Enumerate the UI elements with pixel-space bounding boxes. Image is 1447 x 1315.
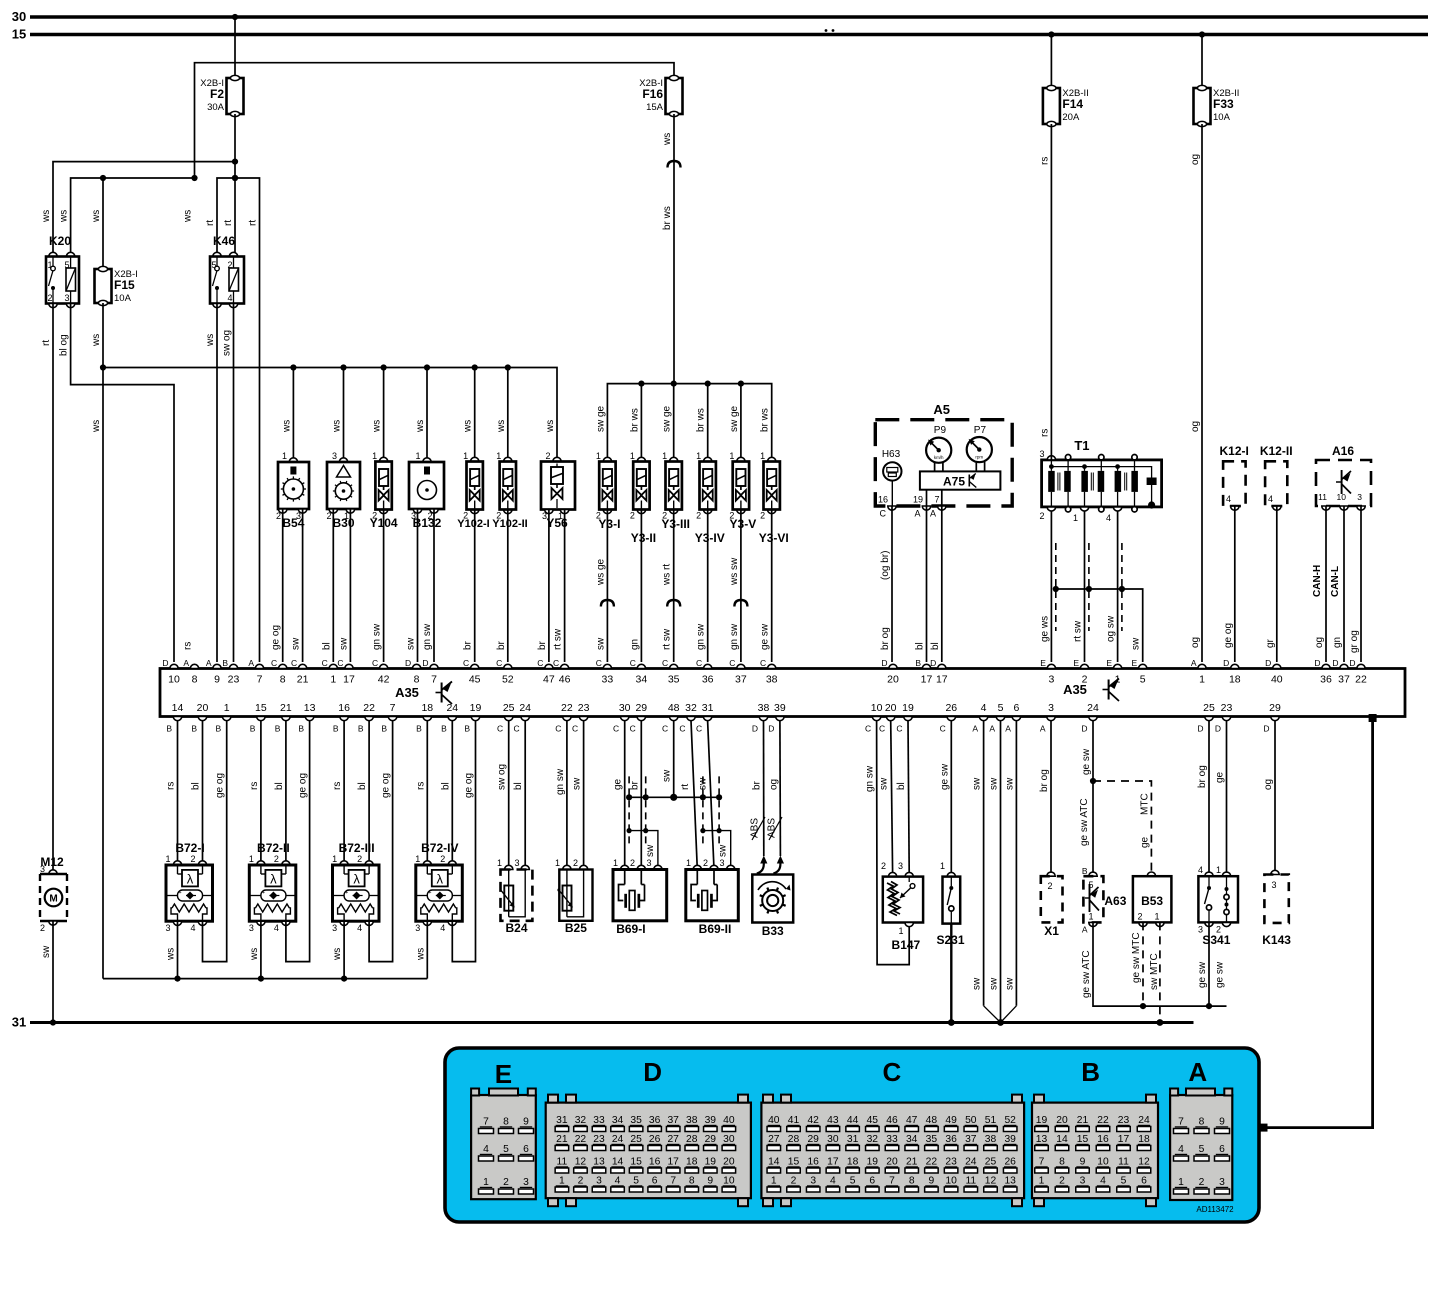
svg-text:16: 16 <box>649 1157 661 1168</box>
svg-text:og: og <box>1263 779 1274 790</box>
Y3 feed bus <box>607 384 771 462</box>
svg-text:35: 35 <box>926 1134 938 1145</box>
svg-text:A: A <box>206 658 212 668</box>
svg-text:19: 19 <box>913 495 923 505</box>
svg-text:22: 22 <box>926 1157 938 1168</box>
svg-text:38: 38 <box>686 1115 698 1126</box>
svg-text:B: B <box>915 658 921 668</box>
svg-text:gn: gn <box>629 639 640 650</box>
svg-text:br: br <box>496 640 507 650</box>
A35 top pin 37D <box>1340 664 1348 668</box>
svg-text:24: 24 <box>612 1134 624 1145</box>
svg-text:T1: T1 <box>1074 438 1089 453</box>
sensor B30 <box>339 458 347 462</box>
svg-text:25: 25 <box>503 702 515 714</box>
svg-text:K12-I: K12-I <box>1220 444 1249 458</box>
svg-text:23: 23 <box>578 702 590 714</box>
svg-text:1: 1 <box>330 674 336 686</box>
wire T1.4 to A35 1E <box>1117 511 1119 662</box>
svg-text:br ws: br ws <box>696 408 707 432</box>
svg-text:M: M <box>49 894 57 905</box>
svg-text:4: 4 <box>190 923 195 933</box>
svg-text:1: 1 <box>771 1176 777 1187</box>
svg-text:ws: ws <box>372 420 383 433</box>
svg-text:2: 2 <box>1199 1177 1205 1188</box>
svg-text:25: 25 <box>985 1157 997 1168</box>
svg-text:B33: B33 <box>762 924 784 938</box>
sensor B33 wires <box>763 721 765 856</box>
svg-text:rs: rs <box>332 782 343 790</box>
svg-text:1: 1 <box>165 854 170 864</box>
svg-text:sw: sw <box>41 945 52 958</box>
svg-text:14: 14 <box>612 1157 624 1168</box>
svg-text:C: C <box>497 724 503 734</box>
svg-text:3: 3 <box>523 1177 529 1188</box>
link A35 to connector panel <box>1369 714 1377 722</box>
svg-text:6: 6 <box>1219 1144 1225 1155</box>
svg-text:1: 1 <box>224 702 230 714</box>
svg-text:19: 19 <box>1036 1115 1048 1126</box>
svg-text:13: 13 <box>304 702 316 714</box>
svg-text:br ws: br ws <box>760 408 771 432</box>
svg-text:13: 13 <box>593 1157 605 1168</box>
svg-text:A63: A63 <box>1104 894 1126 908</box>
svg-text:A: A <box>1188 1057 1207 1087</box>
svg-text:33: 33 <box>602 674 614 686</box>
A35 bottom pin 19C <box>904 717 912 721</box>
valve Y3-IV <box>704 457 712 461</box>
svg-text:λ: λ <box>437 872 444 887</box>
svg-text:1: 1 <box>630 451 635 461</box>
wire B30.2 <box>332 509 334 662</box>
svg-text:19: 19 <box>470 702 482 714</box>
svg-text:bl: bl <box>896 782 907 790</box>
svg-text:24: 24 <box>965 1157 977 1168</box>
svg-text:34: 34 <box>636 674 648 686</box>
svg-text:bl: bl <box>440 782 451 790</box>
svg-text:2: 2 <box>1059 1176 1065 1187</box>
svg-text:3: 3 <box>1039 449 1044 459</box>
svg-text:ge og: ge og <box>1223 623 1234 648</box>
svg-text:A: A <box>248 658 254 668</box>
svg-text:rs: rs <box>166 782 177 790</box>
svg-text:2: 2 <box>503 1177 509 1188</box>
svg-text:B: B <box>464 724 470 734</box>
valve Y3-I <box>603 457 611 461</box>
node F15 tap <box>100 175 106 181</box>
svg-text:ge ws: ge ws <box>1039 616 1050 642</box>
svg-text:A: A <box>914 509 920 519</box>
A35 top pin 8A <box>190 664 198 668</box>
wire Y102-I.2 <box>474 510 476 663</box>
svg-text:C: C <box>879 724 885 734</box>
svg-text:F16: F16 <box>642 87 663 101</box>
bus 15 <box>30 33 1428 36</box>
svg-text:rt: rt <box>205 220 216 226</box>
svg-text:C: C <box>572 724 578 734</box>
svg-text:rt: rt <box>41 340 52 346</box>
svg-text:gn sw: gn sw <box>555 768 566 795</box>
svg-text:15: 15 <box>255 702 267 714</box>
svg-text:46: 46 <box>886 1115 898 1126</box>
svg-text:22: 22 <box>363 702 375 714</box>
A35 bottom pin 20C <box>887 717 895 721</box>
A35 bottom pin 26C <box>947 717 955 721</box>
A35 top pin 45C <box>471 664 479 668</box>
svg-text:ws: ws <box>332 948 343 961</box>
svg-text:CAN-L: CAN-L <box>1330 566 1341 597</box>
svg-text:bl: bl <box>321 642 332 650</box>
svg-text:1: 1 <box>1178 1177 1184 1188</box>
svg-text:D: D <box>405 658 411 668</box>
svg-text:20: 20 <box>887 674 899 686</box>
sender B69-I <box>624 721 626 869</box>
wire stub <box>383 368 385 462</box>
svg-text:44: 44 <box>847 1115 859 1126</box>
svg-text:B: B <box>298 724 304 734</box>
svg-text:ge sw: ge sw <box>1081 748 1092 775</box>
svg-text:br: br <box>537 640 548 650</box>
wire H63 to A35.20 <box>891 481 893 506</box>
svg-text:rt sw: rt sw <box>1073 620 1084 642</box>
svg-text:A35: A35 <box>395 685 419 700</box>
svg-text:br: br <box>752 780 763 790</box>
wire K46.3 to A35 pin9 <box>216 304 218 663</box>
svg-text:B72-II: B72-II <box>257 841 290 855</box>
svg-text:25: 25 <box>1203 702 1215 714</box>
svg-text:9: 9 <box>523 1117 529 1128</box>
svg-text:D: D <box>1314 658 1320 668</box>
wire Y3-IV out <box>707 510 709 663</box>
svg-text:3: 3 <box>64 293 69 303</box>
svg-text:37: 37 <box>965 1134 977 1145</box>
svg-text:Y3-I: Y3-I <box>598 517 620 531</box>
svg-text:29: 29 <box>635 702 647 714</box>
svg-text:13: 13 <box>1004 1176 1016 1187</box>
svg-text:11: 11 <box>1318 492 1327 502</box>
svg-text:F15: F15 <box>114 278 135 292</box>
svg-text:7: 7 <box>390 702 396 714</box>
svg-text:2: 2 <box>791 1176 797 1187</box>
svg-text:C: C <box>514 724 520 734</box>
svg-text:CAN-H: CAN-H <box>1312 565 1323 597</box>
svg-text:45: 45 <box>469 674 481 686</box>
svg-text:6: 6 <box>523 1144 529 1155</box>
A35 bottom pin 15B <box>257 717 265 721</box>
wire stub <box>740 384 742 462</box>
node F2 top on bus 30 <box>232 14 238 20</box>
svg-text:32: 32 <box>685 702 697 714</box>
svg-text:B53: B53 <box>1141 894 1163 908</box>
wire K12-I to A35 18D <box>1234 506 1236 662</box>
A35 bottom pin 29C <box>637 717 645 721</box>
wire B54.2 <box>282 509 284 662</box>
svg-text:D: D <box>1349 658 1355 668</box>
A35 top pin 17B <box>922 664 930 668</box>
wire B53.1 dashed <box>1159 922 1161 1022</box>
svg-text:D: D <box>1215 724 1221 734</box>
A35 top pin 8D <box>412 664 420 668</box>
connector X1 wire <box>1050 721 1052 877</box>
svg-text:rs: rs <box>249 782 260 790</box>
svg-text:bl: bl <box>915 642 926 650</box>
svg-text:rt: rt <box>680 784 691 790</box>
svg-text:48: 48 <box>926 1115 938 1126</box>
svg-text:X1: X1 <box>1044 924 1059 938</box>
wire stub <box>292 368 294 462</box>
svg-text:E: E <box>1132 658 1138 668</box>
svg-text:K12-II: K12-II <box>1260 444 1293 458</box>
svg-text:1: 1 <box>332 854 337 864</box>
svg-text:10: 10 <box>945 1176 957 1187</box>
svg-text:20: 20 <box>886 1157 898 1168</box>
svg-text:rt: rt <box>223 220 234 226</box>
svg-text:2: 2 <box>1039 511 1044 521</box>
svg-text:42: 42 <box>807 1115 819 1126</box>
svg-text:52: 52 <box>1004 1115 1016 1126</box>
svg-text:og sw: og sw <box>1106 615 1117 642</box>
svg-text:og: og <box>1190 637 1201 648</box>
svg-text:D: D <box>768 724 774 734</box>
svg-text:ge sw: ge sw <box>760 623 771 650</box>
sender B69-II <box>691 721 697 869</box>
svg-text:8: 8 <box>689 1176 695 1187</box>
shield screens T1 <box>1055 543 1057 631</box>
A35 top pin 40D <box>1273 664 1281 668</box>
svg-text:og: og <box>1190 154 1201 165</box>
svg-text:41: 41 <box>788 1115 800 1126</box>
svg-text:2: 2 <box>326 511 331 521</box>
fuse F14 <box>1043 88 1060 124</box>
node ws bus <box>340 364 346 370</box>
svg-text:C: C <box>865 724 871 734</box>
B69-II shield to pin3 <box>703 831 731 870</box>
node Y3 bus <box>738 381 744 387</box>
svg-text:Y3-IV: Y3-IV <box>695 531 725 545</box>
svg-text:1: 1 <box>415 451 420 461</box>
svg-text:sw MTC: sw MTC <box>1149 953 1160 990</box>
wire stub <box>640 384 642 462</box>
svg-text:21: 21 <box>556 1134 568 1145</box>
svg-text:ws: ws <box>496 420 507 433</box>
svg-text:11: 11 <box>965 1176 976 1187</box>
wire sw shield A35.48 <box>673 721 675 798</box>
svg-text:Y3-VI: Y3-VI <box>759 531 789 545</box>
node ws bus <box>472 364 478 370</box>
svg-text:4: 4 <box>1106 513 1111 523</box>
svg-text:36: 36 <box>945 1134 957 1145</box>
svg-text:20: 20 <box>723 1157 735 1168</box>
svg-text:19: 19 <box>902 702 914 714</box>
svg-text:1: 1 <box>613 858 618 868</box>
svg-text:B: B <box>1081 1057 1100 1087</box>
A35 bottom pin 25D <box>1205 717 1213 721</box>
svg-text:13: 13 <box>1036 1134 1048 1145</box>
svg-text:1: 1 <box>497 858 502 868</box>
svg-text:gn: gn <box>1332 637 1343 648</box>
svg-text:12: 12 <box>575 1157 587 1168</box>
svg-text:29: 29 <box>1269 702 1281 714</box>
node x194 tap <box>191 175 197 181</box>
svg-text:19: 19 <box>867 1157 879 1168</box>
svg-text:4: 4 <box>483 1144 489 1155</box>
svg-text:49: 49 <box>945 1115 957 1126</box>
A35 bottom pin 3A <box>1047 717 1055 721</box>
svg-text:ws: ws <box>205 334 216 347</box>
svg-text:1: 1 <box>1216 865 1221 875</box>
svg-text:gn sw: gn sw <box>729 623 740 650</box>
svg-text:23: 23 <box>1221 702 1233 714</box>
sensor B24 <box>508 721 510 869</box>
A35 top pin 22D <box>1357 664 1365 668</box>
svg-text:2: 2 <box>47 293 52 303</box>
A35 top pin 5E <box>1139 664 1147 668</box>
svg-text:1: 1 <box>282 451 287 461</box>
svg-text:D: D <box>1332 658 1338 668</box>
svg-text:S341: S341 <box>1202 933 1230 947</box>
svg-text:F2: F2 <box>210 87 224 101</box>
svg-text:C: C <box>596 658 602 668</box>
fuse F33 <box>1194 88 1211 124</box>
svg-text:C: C <box>291 658 297 668</box>
svg-text:C: C <box>630 724 636 734</box>
svg-text:39: 39 <box>1004 1134 1016 1145</box>
wire B72-III.4 loop <box>369 721 393 962</box>
wire K46.4 to A35 pin23 <box>233 304 235 663</box>
svg-text:ws: ws <box>91 420 102 433</box>
svg-text:20: 20 <box>197 702 209 714</box>
svg-text:bl: bl <box>930 642 941 650</box>
svg-text:51: 51 <box>985 1115 997 1126</box>
svg-text:C: C <box>271 658 277 668</box>
svg-text:5: 5 <box>633 1176 639 1187</box>
svg-text:8: 8 <box>503 1117 509 1128</box>
A35 bottom pin 7B <box>388 717 396 721</box>
svg-text:2: 2 <box>578 1176 584 1187</box>
svg-text:27: 27 <box>667 1134 679 1145</box>
svg-text:5: 5 <box>1199 1144 1205 1155</box>
A35 bottom pin 6A <box>1012 717 1020 721</box>
svg-text:7: 7 <box>483 1117 489 1128</box>
wire Y3-III out <box>673 510 675 663</box>
connector X1 <box>1047 872 1055 876</box>
svg-text:C: C <box>896 724 902 734</box>
svg-text:bl: bl <box>357 782 368 790</box>
svg-text:ws: ws <box>662 133 673 146</box>
wire B30.1 <box>349 509 351 662</box>
shield drain wire <box>1056 589 1143 662</box>
A35 bottom pin 21B <box>282 717 290 721</box>
svg-text:29: 29 <box>705 1134 717 1145</box>
svg-text:3: 3 <box>40 864 45 874</box>
svg-text:B: B <box>222 658 228 668</box>
svg-text:1: 1 <box>662 451 667 461</box>
svg-text:ge og: ge og <box>271 625 282 650</box>
svg-text:7: 7 <box>934 495 939 505</box>
svg-text:30: 30 <box>619 702 631 714</box>
A35 top pin 10D <box>170 664 178 668</box>
svg-text:sw: sw <box>595 637 606 650</box>
wire Y3-II out <box>640 510 642 663</box>
svg-text:F14: F14 <box>1062 97 1083 111</box>
wire Y3-VI out <box>771 510 773 663</box>
svg-text:3: 3 <box>810 1176 816 1187</box>
svg-text:22: 22 <box>575 1134 587 1145</box>
A35 top pin 1A <box>1198 664 1206 668</box>
svg-text:ws: ws <box>415 420 426 433</box>
screen B69-II b <box>718 776 720 845</box>
svg-text:1: 1 <box>483 1177 489 1188</box>
svg-text:(og br): (og br) <box>880 551 891 580</box>
svg-text:gn sw: gn sw <box>696 623 707 650</box>
svg-text:D: D <box>162 658 168 668</box>
svg-text:B: B <box>333 724 339 734</box>
svg-text:B: B <box>1082 866 1088 876</box>
wire A16.3 <box>1360 506 1362 662</box>
node M12 ground <box>50 1019 56 1025</box>
A35 bottom pin 24B <box>448 717 456 721</box>
svg-text:ws ge: ws ge <box>595 558 606 586</box>
svg-text:37: 37 <box>1338 674 1350 686</box>
svg-text:3: 3 <box>415 923 420 933</box>
svg-text:4: 4 <box>1100 1176 1106 1187</box>
svg-text:C: C <box>679 724 685 734</box>
wire K12-II to A35 40D <box>1276 506 1278 662</box>
svg-text:7: 7 <box>257 674 263 686</box>
svg-text:31: 31 <box>12 1015 26 1030</box>
svg-text:F33: F33 <box>1213 97 1234 111</box>
svg-text:22: 22 <box>1355 674 1367 686</box>
svg-text:ge og: ge og <box>215 773 226 798</box>
ECU connector A35 <box>160 669 1405 717</box>
svg-text:K20: K20 <box>49 234 71 248</box>
svg-text:D: D <box>1081 724 1087 734</box>
svg-text:ws: ws <box>91 334 102 347</box>
svg-text:1: 1 <box>1073 513 1078 523</box>
svg-text:1: 1 <box>596 451 601 461</box>
svg-text:17: 17 <box>936 674 948 686</box>
svg-text:MTC: MTC <box>1139 793 1150 815</box>
A35 top pin 37C <box>737 664 745 668</box>
svg-text:18: 18 <box>1138 1134 1150 1145</box>
A35 top pin 9A <box>213 664 221 668</box>
wire stub <box>507 368 509 462</box>
svg-text:2: 2 <box>357 854 362 864</box>
fuse F16 <box>666 78 683 114</box>
svg-text:rt: rt <box>248 220 259 226</box>
svg-text:ge og: ge og <box>381 773 392 798</box>
svg-text:A75: A75 <box>943 475 965 489</box>
svg-text:1: 1 <box>415 854 420 864</box>
valve Y56 <box>553 457 561 461</box>
svg-text:ws: ws <box>91 210 102 223</box>
svg-text:B72-I: B72-I <box>175 841 204 855</box>
svg-text:B: B <box>250 724 256 734</box>
A35 bottom pin 14B <box>173 717 181 721</box>
gauge stems <box>934 462 936 471</box>
svg-text:3: 3 <box>1357 492 1362 502</box>
A35 top pin 52C <box>504 664 512 668</box>
svg-text:A: A <box>1005 724 1011 734</box>
svg-text:D: D <box>752 724 758 734</box>
wire bus15 to F14 <box>1050 35 1052 89</box>
valve Y102-I <box>471 457 479 461</box>
svg-text:rt sw: rt sw <box>553 628 564 650</box>
A35 bottom pin 22C <box>563 717 571 721</box>
A35 top pin 42C <box>379 664 387 668</box>
svg-text:2: 2 <box>881 861 886 871</box>
svg-text:3: 3 <box>1080 1176 1086 1187</box>
